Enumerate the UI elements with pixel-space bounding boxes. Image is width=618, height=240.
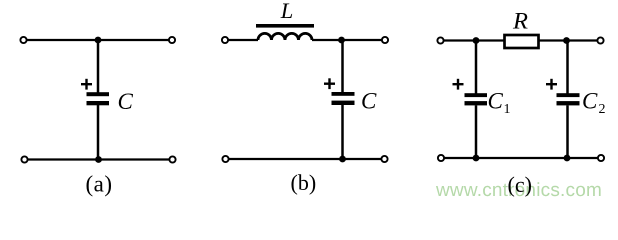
svg-text:R: R <box>512 9 528 34</box>
svg-text:C: C <box>488 89 504 114</box>
svg-text:(c): (c) <box>508 172 532 197</box>
svg-text:(b): (b) <box>291 170 317 195</box>
svg-text:(a): (a) <box>86 172 113 197</box>
svg-text:2: 2 <box>599 102 606 117</box>
svg-text:1: 1 <box>504 102 511 117</box>
svg-text:C: C <box>361 89 377 114</box>
svg-text:C: C <box>582 89 598 114</box>
svg-text:L: L <box>280 0 294 23</box>
svg-text:C: C <box>118 89 134 114</box>
